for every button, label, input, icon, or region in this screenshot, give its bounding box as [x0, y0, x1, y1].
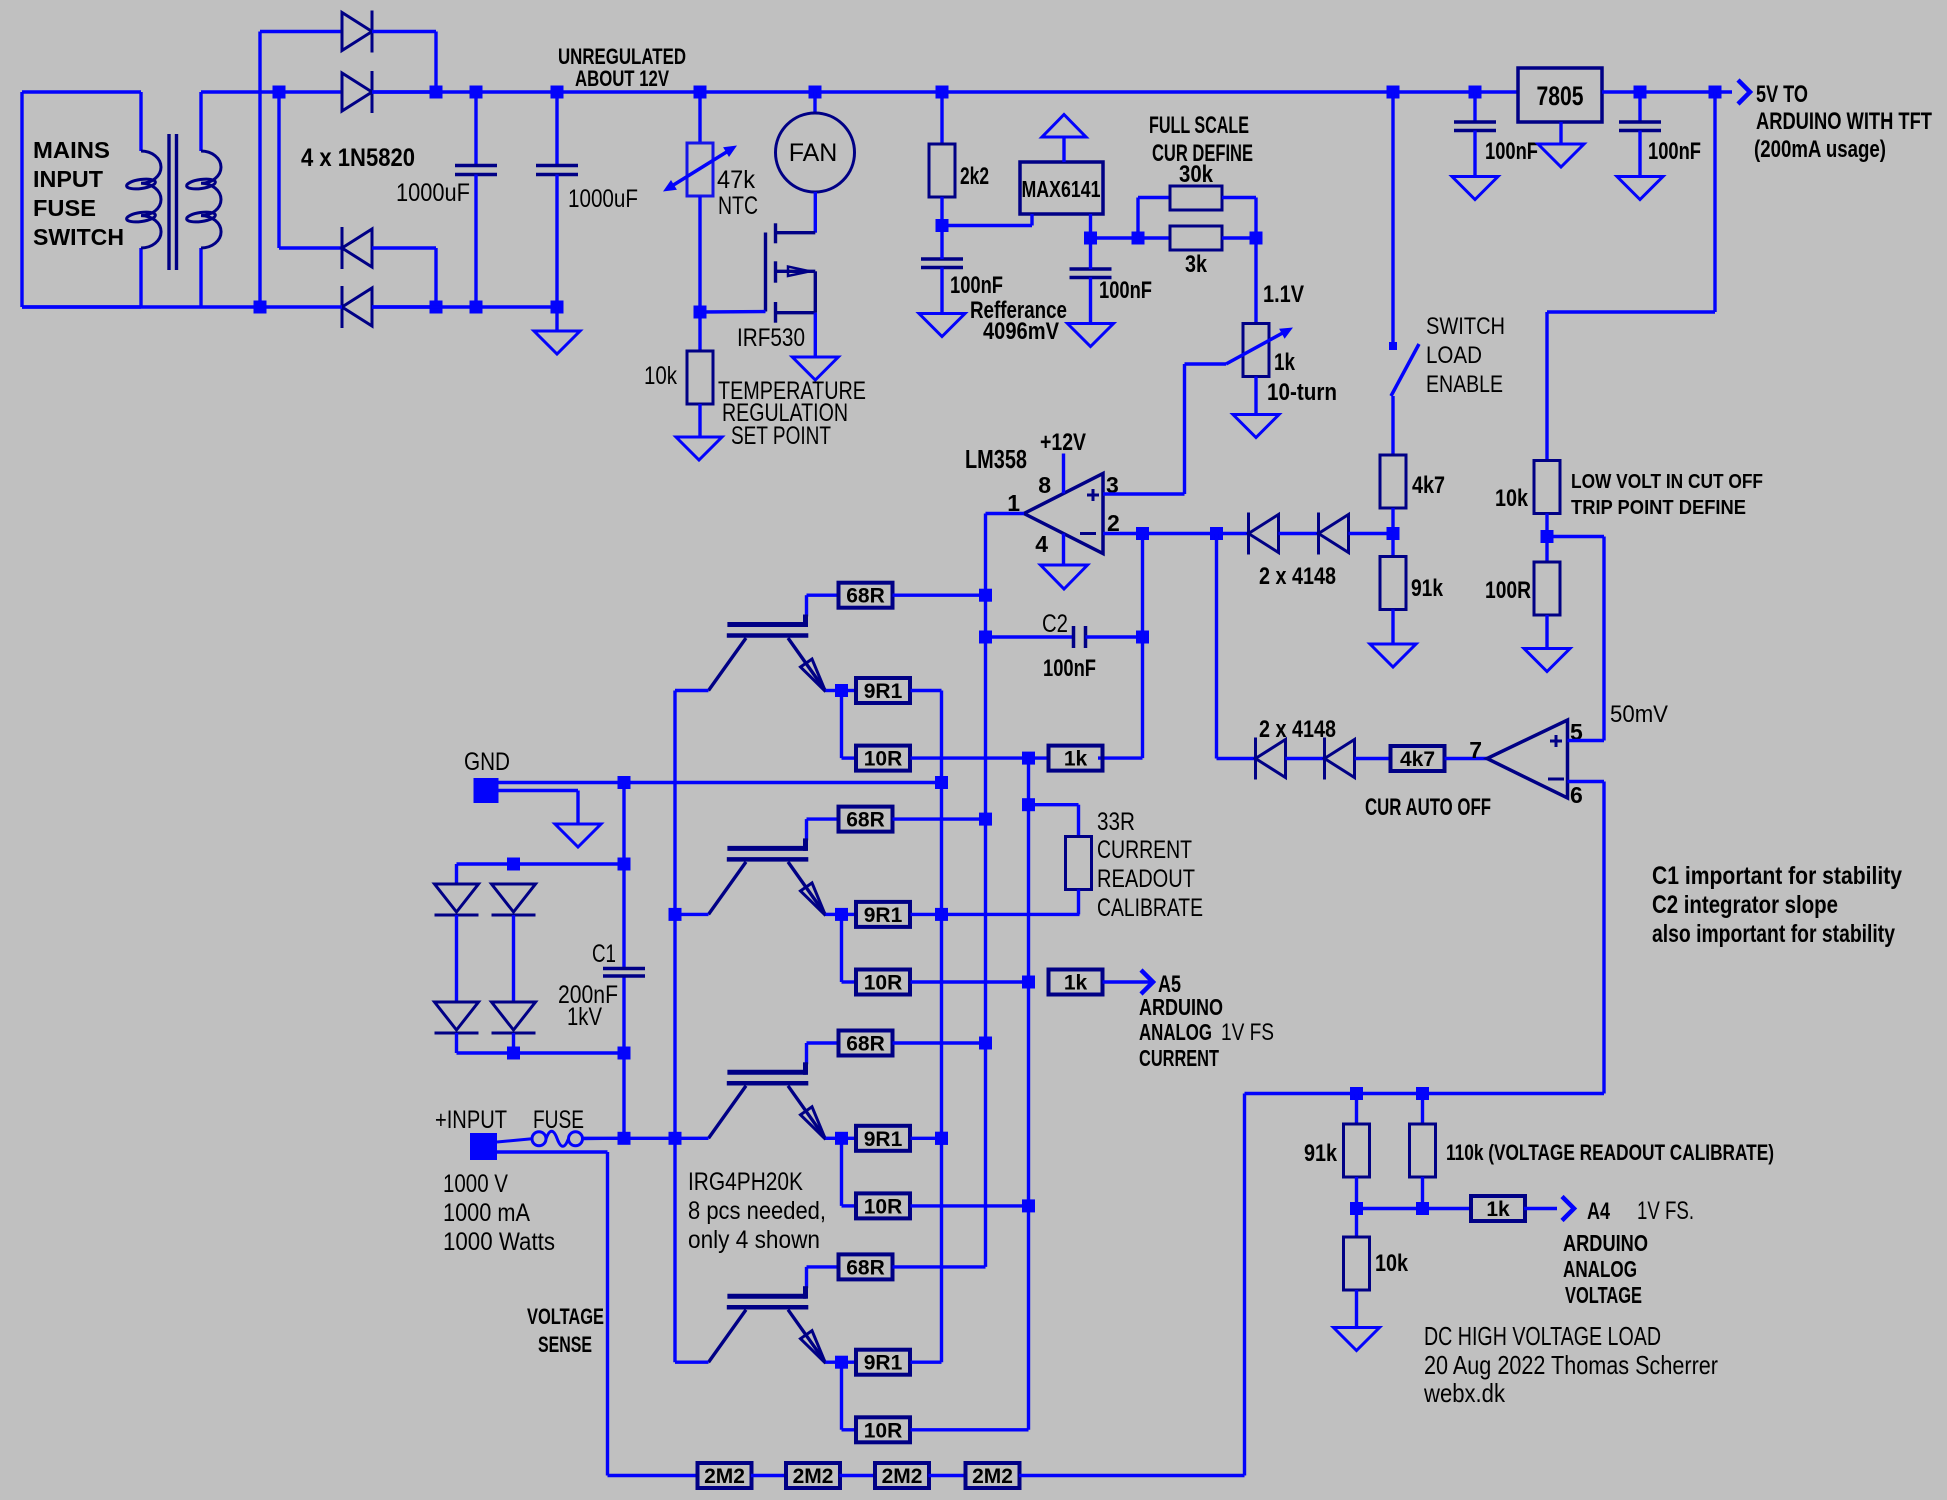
capacitor 100nF ref-out [1070, 238, 1112, 324]
resistor 4k7 autooff [1391, 746, 1445, 771]
svg-text:(200mA usage): (200mA usage) [1754, 136, 1886, 163]
diode D9 string [435, 884, 479, 915]
resistor 9R1 4 [842, 1350, 911, 1375]
node junction cap-c top [1469, 86, 1482, 99]
svg-text:2M2: 2M2 [882, 1465, 923, 1488]
svg-text:1V FS: 1V FS [1221, 1019, 1274, 1046]
wire MAX6141 gnd pin [942, 214, 1032, 226]
node junction pin2-autooff [1210, 527, 1223, 540]
svg-text:91k: 91k [1304, 1140, 1338, 1167]
node junction 10R3 bus [1022, 1199, 1035, 1212]
svg-text:READOUT: READOUT [1097, 865, 1195, 893]
resistor 10R 3 [856, 1193, 910, 1218]
wire +12V pin8 [1062, 454, 1065, 494]
svg-text:68R: 68R [846, 1033, 885, 1056]
resistor 110k divider [1410, 1094, 1436, 1209]
text LM358 [965, 444, 1027, 474]
resistor 10R 2 [856, 970, 910, 995]
wire pin6 down [1568, 782, 1605, 1094]
svg-text:webx.dk: webx.dk [1423, 1378, 1506, 1408]
wire 10R 2 to 1k [911, 980, 1031, 983]
text C1 C2 stability notes [1652, 862, 1902, 948]
diode D7 4148 [1256, 738, 1286, 780]
resistor 91k switch [1380, 557, 1406, 610]
text 1.1V [1263, 281, 1304, 308]
wire 4148 to 4k7 [1349, 532, 1394, 535]
text title DC HIGH VOLTAGE LOAD [1423, 1321, 1718, 1408]
wire fuse to collectors [584, 1137, 676, 1140]
resistor 68R gate 2 [839, 807, 893, 832]
text 91k switch [1411, 575, 1444, 602]
text 30k [1179, 161, 1214, 188]
ground 7805-out cap [1617, 177, 1663, 200]
resistor 91k divider [1344, 1094, 1370, 1209]
svg-text:FULL SCALE: FULL SCALE [1149, 112, 1249, 139]
svg-text:LOAD: LOAD [1426, 342, 1482, 369]
svg-text:50mV: 50mV [1610, 701, 1668, 728]
node junction bus-V2 [273, 86, 286, 99]
wire 9R1 2 to emitter bus [911, 913, 1080, 916]
wire pot wiper [1185, 364, 1227, 494]
text 100nF ref-in [950, 272, 1003, 299]
resistor 10k divider [1344, 1209, 1370, 1328]
node junction V1-bottom [254, 301, 267, 314]
wire 30k branch [1138, 198, 1170, 239]
text A5 [1158, 971, 1181, 998]
wire 1k to A4 [1524, 1207, 1557, 1210]
text A4 [1587, 1198, 1610, 1225]
node junction gate bus 3 [979, 1037, 992, 1050]
ground pin4 [1041, 534, 1088, 590]
wire pin1 output bus [986, 514, 1025, 1267]
diode D2 1N5820 [342, 71, 436, 113]
wire pin2 row [1103, 532, 1249, 535]
text 4k7 pullup [1412, 472, 1445, 499]
text 2 x 4148 lower [1259, 716, 1336, 743]
resistor 1k A4 [1471, 1196, 1525, 1221]
wire diode rail bottom [457, 1051, 625, 1054]
op-amp U1B LM358 [1487, 720, 1568, 798]
node junction collector fuse row [669, 1132, 682, 1145]
text LOW VOLT IN CUT OFF TRIP POINT DEFINE [1571, 471, 1763, 519]
svg-text:68R: 68R [846, 809, 885, 832]
svg-text:ANALOG: ANALOG [1563, 1256, 1637, 1282]
text 110k label [1446, 1140, 1774, 1165]
svg-text:10R: 10R [864, 1195, 903, 1218]
svg-text:4096mV: 4096mV [983, 318, 1059, 345]
text 100nF ref-out [1099, 277, 1152, 304]
text 100nF 7805-out [1648, 138, 1701, 165]
svg-text:LM358: LM358 [965, 444, 1027, 474]
node junction 2k2-cap [936, 219, 949, 232]
potentiometer 1k 10-turn [1226, 238, 1293, 415]
svg-text:7805: 7805 [1537, 81, 1584, 111]
transistor Q4 IRG4PH20K [675, 1062, 842, 1139]
node junction NTC top [694, 86, 707, 99]
text 2 x 4148 upper [1259, 563, 1336, 590]
wire 7805 out bus [1602, 90, 1732, 93]
node junction collector row2 [669, 908, 682, 921]
resistor 9R1 3 [842, 1126, 911, 1151]
text FUSE [533, 1106, 584, 1134]
node junction divider right [1250, 232, 1263, 245]
wire C1 column [622, 783, 625, 1139]
text 50mV [1610, 701, 1668, 728]
text pin 1 [1007, 490, 1020, 516]
svg-text:A4: A4 [1587, 1198, 1610, 1225]
wire top bus [372, 90, 1518, 93]
svg-text:ABOUT 12V: ABOUT 12V [575, 66, 669, 91]
text NTC [718, 192, 758, 220]
svg-text:1k: 1k [1486, 1198, 1510, 1221]
wire feedback bus [1027, 758, 1030, 1430]
node junction divider left [1132, 232, 1145, 245]
wire gate Q5 row [807, 1267, 839, 1288]
resistor 4k7 pullup [1380, 455, 1406, 508]
transistor Q5 IRG4PH20K [675, 1286, 842, 1363]
svg-text:SENSE: SENSE [538, 1332, 592, 1357]
wire emitter drop 1 [842, 691, 856, 759]
text pin 7 [1469, 737, 1482, 763]
node junction switch top [1387, 86, 1400, 99]
diode D12 string [492, 1002, 536, 1033]
svg-text:SWITCH: SWITCH [1426, 313, 1505, 340]
node junction 110k bottom [1416, 1202, 1429, 1215]
wire 30k right [1222, 198, 1256, 239]
node junction 2k2 top [936, 86, 949, 99]
node junction gate bus 2 [979, 813, 992, 826]
svg-text:NTC: NTC [718, 192, 758, 220]
svg-text:CALIBRATE: CALIBRATE [1097, 894, 1203, 922]
wire gate Q3 row [807, 819, 839, 840]
svg-text:1V FS.: 1V FS. [1637, 1197, 1694, 1225]
wire pin2 to lower diodes [1217, 534, 1256, 759]
svg-text:10R: 10R [864, 748, 903, 771]
svg-text:2k2: 2k2 [960, 163, 989, 190]
text 100nF C2 [1043, 655, 1096, 682]
svg-text:4 x 1N5820: 4 x 1N5820 [301, 144, 415, 172]
resistor 10R 1 [856, 746, 910, 771]
wire diode rail top [457, 864, 625, 884]
text VOLTAGE SENSE [527, 1304, 604, 1357]
resistor 33R [1029, 805, 1092, 915]
text pin 4 [1035, 531, 1048, 557]
text ARDUINO ANALOG VOLTAGE [1563, 1230, 1648, 1308]
wire bottom bus right [372, 305, 557, 308]
transistor Q3 IRG4PH20K [675, 838, 842, 915]
resistor 10k lowvolt [1534, 461, 1560, 514]
text 4 x 1N5820 [301, 144, 415, 172]
wire FAN to drain [814, 192, 817, 233]
text 1000uF first [396, 179, 470, 207]
arrow A5 [1141, 970, 1153, 994]
svg-text:10k: 10k [644, 362, 677, 390]
wire 9R1 4 to emitter bus [911, 1360, 942, 1363]
text 100R [1485, 577, 1531, 604]
svg-text:only 4 shown: only 4 shown [688, 1226, 820, 1254]
svg-text:1k: 1k [1064, 972, 1088, 995]
svg-text:VOLTAGE: VOLTAGE [1565, 1282, 1642, 1308]
transformer T1 primary [126, 92, 161, 307]
svg-text:IRF530: IRF530 [737, 324, 805, 352]
node junction diode rail top [507, 858, 520, 871]
text UNREGULATED ABOUT 12V [558, 44, 686, 91]
node junction bottom D3 [430, 301, 443, 314]
wire emitter drop 3 [842, 1138, 856, 1206]
svg-text:TRIP POINT DEFINE: TRIP POINT DEFINE [1571, 497, 1746, 519]
ground below 91k [1370, 610, 1416, 668]
text 1k pot [1274, 349, 1296, 376]
svg-text:DC HIGH VOLTAGE LOAD: DC HIGH VOLTAGE LOAD [1424, 1321, 1661, 1351]
ground below 100R [1524, 615, 1570, 672]
node junction emitter bus 2 [935, 908, 948, 921]
svg-text:1000uF: 1000uF [396, 179, 470, 207]
wire 4k7 to pin7 [1445, 757, 1488, 760]
svg-text:SET POINT: SET POINT [731, 422, 831, 450]
transistor Q2 IRG4PH20K [675, 615, 842, 692]
text 10k divider [1375, 1250, 1409, 1277]
text 1000uF second [568, 185, 638, 213]
text 100nF 7805-in [1485, 138, 1538, 165]
svg-text:1000 Watts: 1000 Watts [443, 1228, 555, 1256]
wire 68R 4 to gate bus [893, 1265, 986, 1268]
svg-text:4k7: 4k7 [1400, 748, 1435, 771]
wire 68R 1 to gate bus [893, 594, 986, 597]
node junction gnd rail-emitter bus [935, 776, 948, 789]
svg-text:10R: 10R [864, 1419, 903, 1442]
svg-text:FAN: FAN [789, 139, 838, 167]
svg-text:100nF: 100nF [1043, 655, 1096, 682]
node junction C2 left [979, 631, 992, 644]
capacitor C 1000uF first [455, 86, 497, 314]
svg-text:33R: 33R [1097, 808, 1135, 836]
svg-text:FUSE: FUSE [533, 1106, 584, 1134]
svg-text:9R1: 9R1 [864, 1128, 903, 1151]
node junction 33R tap [1022, 798, 1035, 811]
svg-text:6: 6 [1570, 782, 1583, 808]
pad +INPUT [470, 1133, 497, 1160]
svg-text:68R: 68R [846, 1256, 885, 1279]
wire divider top row [1245, 1092, 1605, 1095]
text CUR AUTO OFF [1365, 794, 1491, 821]
svg-text:VOLTAGE: VOLTAGE [527, 1304, 604, 1329]
svg-text:100nF: 100nF [1485, 138, 1538, 165]
resistor 2M2 a [698, 1463, 752, 1488]
node junction 10R2-1k [1022, 976, 1035, 989]
svg-text:CURRENT: CURRENT [1097, 836, 1192, 864]
resistor 68R gate 3 [839, 1031, 893, 1056]
resistor 10k temperature [687, 312, 713, 437]
wire secondary top to bridge [201, 90, 342, 93]
svg-text:C2: C2 [1042, 610, 1068, 638]
power arrow MAX6141 supply [1042, 115, 1086, 163]
wire 2M2 to divider [1019, 1094, 1245, 1476]
op-amp U1A LM358 [1024, 474, 1103, 554]
svg-text:10-turn: 10-turn [1267, 379, 1337, 406]
svg-text:2 x 4148: 2 x 4148 [1259, 563, 1336, 590]
wire 68R 3 to gate bus [893, 1041, 986, 1044]
wire 5V to 10k divider [1547, 92, 1715, 461]
node junction 10R1-1k [1022, 752, 1035, 765]
pad GND [474, 778, 499, 803]
wire emitter drop 2 [842, 914, 856, 982]
node junction fuse-C1col [618, 1132, 631, 1145]
text IRG4PH20K 8 pcs needed only 4 shown [688, 1168, 826, 1254]
svg-text:91k: 91k [1411, 575, 1444, 602]
transformer T1 secondary [186, 92, 221, 307]
wire divider bottom row [1357, 1207, 1473, 1210]
svg-text:2M2: 2M2 [793, 1465, 834, 1488]
wire D9-D11 [455, 915, 458, 1002]
wire V2 secondary-top drop [279, 92, 342, 248]
arrow A4 [1562, 1197, 1574, 1221]
transistor Q1 IRF530 [700, 223, 815, 322]
diode D5 4148 [1249, 513, 1279, 555]
text +12V [1040, 429, 1086, 456]
svg-text:110k (VOLTAGE READOUT CALIBRAT: 110k (VOLTAGE READOUT CALIBRATE) [1446, 1140, 1774, 1165]
wire 3k right [1222, 236, 1256, 239]
wire 2M2 c-d [929, 1474, 967, 1477]
ground 7805 [1538, 122, 1584, 167]
resistor 100R [1534, 562, 1560, 615]
resistor NTC 47k [663, 92, 737, 312]
text pin 8 [1038, 472, 1051, 498]
capacitor 100nF 7805-out [1619, 92, 1661, 177]
node junction pin2-C2 [1136, 527, 1149, 540]
svg-text:GND: GND [464, 748, 510, 776]
wire 9R1 3 to emitter bus [911, 1137, 942, 1140]
text C2 [1042, 610, 1068, 638]
svg-text:10R: 10R [864, 972, 903, 995]
svg-text:8 pcs needed,: 8 pcs needed, [688, 1197, 826, 1225]
wire pin3 input [1103, 492, 1185, 495]
svg-text:INPUT: INPUT [33, 166, 103, 192]
wire 2M2 a-b [751, 1474, 787, 1477]
text pin 3 [1106, 472, 1119, 498]
fuse F1 [497, 1131, 624, 1146]
resistor 30k [1170, 186, 1222, 210]
svg-text:2 x 4148: 2 x 4148 [1259, 716, 1336, 743]
capacitor 100nF ref-in [921, 226, 963, 314]
diode D3 1N5820 [342, 227, 436, 307]
svg-text:ENABLE: ENABLE [1426, 371, 1503, 398]
node junction gnd rail C1 [618, 776, 631, 789]
text GND [464, 748, 510, 776]
diode D1 1N5820 [260, 11, 436, 93]
diode D11 string [435, 1002, 479, 1033]
node junction ref out [1084, 232, 1097, 245]
resistor 9R1 1 [842, 678, 911, 703]
node junction emitter 4 [835, 1356, 848, 1369]
text SWITCH LOAD ENABLE [1426, 313, 1505, 398]
resistor 2M2 d [966, 1463, 1020, 1488]
text FULL SCALE CUR DEFINE [1149, 112, 1253, 167]
wire 10R 4 to bus [911, 1428, 1029, 1431]
resistor 2M2 b [786, 1463, 840, 1488]
svg-text:68R: 68R [846, 585, 885, 608]
text 10k lowvolt [1495, 485, 1529, 512]
node junction C1 top [618, 858, 631, 871]
svg-text:C2 integrator slope: C2 integrator slope [1652, 891, 1838, 919]
node junction D2-out [430, 86, 443, 99]
text pin 6 [1570, 782, 1583, 808]
svg-text:100nF: 100nF [1648, 138, 1701, 165]
svg-text:4: 4 [1035, 531, 1048, 557]
text C1 [592, 940, 616, 968]
wire 68R 2 to gate bus [893, 817, 986, 820]
wire V1 secondary-bottom riser [258, 32, 261, 308]
svg-text:100nF: 100nF [950, 272, 1003, 299]
wire 10R 3 to bus [911, 1204, 1029, 1207]
ic U2 MAX6141 [1020, 162, 1103, 214]
node junction diode rail bottom [507, 1047, 520, 1060]
wire mains input loop [22, 92, 141, 307]
svg-text:MAX6141: MAX6141 [1022, 176, 1101, 202]
svg-text:1kV: 1kV [567, 1003, 602, 1031]
text 33R CURRENT READOUT CALIBRATE [1097, 808, 1203, 922]
svg-text:8: 8 [1038, 472, 1051, 498]
text MAINS INPUT FUSE SWITCH [33, 137, 124, 250]
wire voltage sense [497, 1152, 698, 1476]
svg-text:7: 7 [1469, 737, 1482, 763]
text TEMPERATURE REGULATION SET POINT [718, 377, 866, 450]
wire emitter drop 4 [842, 1362, 856, 1430]
wire 4148 to 4k7 box [1355, 757, 1392, 760]
svg-text:9R1: 9R1 [864, 904, 903, 927]
wire between lower 4148 [1286, 757, 1325, 760]
svg-text:+INPUT: +INPUT [435, 1106, 507, 1134]
node junction NTC-10k-gate [694, 306, 707, 319]
capacitor C2 100nF [986, 626, 1143, 648]
ground GND pad [498, 791, 601, 848]
capacitor C1 200nF 1kV [603, 969, 645, 977]
resistor 1k A5 [1049, 970, 1103, 995]
svg-text:C1 important for stability: C1 important for stability [1652, 862, 1902, 890]
node junction C1 bottom [618, 1047, 631, 1060]
svg-text:2M2: 2M2 [972, 1465, 1013, 1488]
text pin 5 [1570, 719, 1583, 745]
capacitor C 1000uF second [536, 86, 578, 314]
wire MAX6141 out pin [1089, 214, 1092, 238]
svg-text:1000 V: 1000 V [443, 1170, 508, 1198]
text Refferance 4096mV [970, 297, 1067, 345]
wire 2M2 b-c [840, 1474, 876, 1477]
ground below 10k divider [1334, 1328, 1380, 1351]
capacitor 100nF 7805-in [1454, 92, 1496, 177]
resistor 68R gate 1 [839, 583, 893, 608]
wire between 4148 [1279, 532, 1319, 535]
resistor 2k2 [929, 92, 955, 226]
switch SW1 load enable [1389, 92, 1419, 455]
text 1V FS. [1637, 1197, 1694, 1225]
wire D11 bottom [455, 1033, 458, 1053]
ground below 1000uF [534, 307, 580, 354]
wire 10R 1 to 1k [911, 756, 1049, 759]
ground IRF530 source [792, 313, 838, 380]
svg-text:20 Aug 2022 Thomas Scherrer: 20 Aug 2022 Thomas Scherrer [1424, 1350, 1718, 1380]
resistor 68R gate 4 [839, 1254, 893, 1279]
node junction 5V branch [1709, 86, 1722, 99]
node junction lowvolt [1541, 514, 1554, 563]
text 10k temperature [644, 362, 677, 390]
ground below 100nF ref-in [919, 314, 965, 337]
node junction emitter bus row3 [935, 1132, 948, 1145]
node junction gate bus 1 [979, 589, 992, 602]
resistor 2M2 c [875, 1463, 929, 1488]
resistor 1k feedback [1049, 746, 1103, 771]
wire D10-D12 [512, 915, 515, 1002]
text 3k [1185, 251, 1208, 278]
